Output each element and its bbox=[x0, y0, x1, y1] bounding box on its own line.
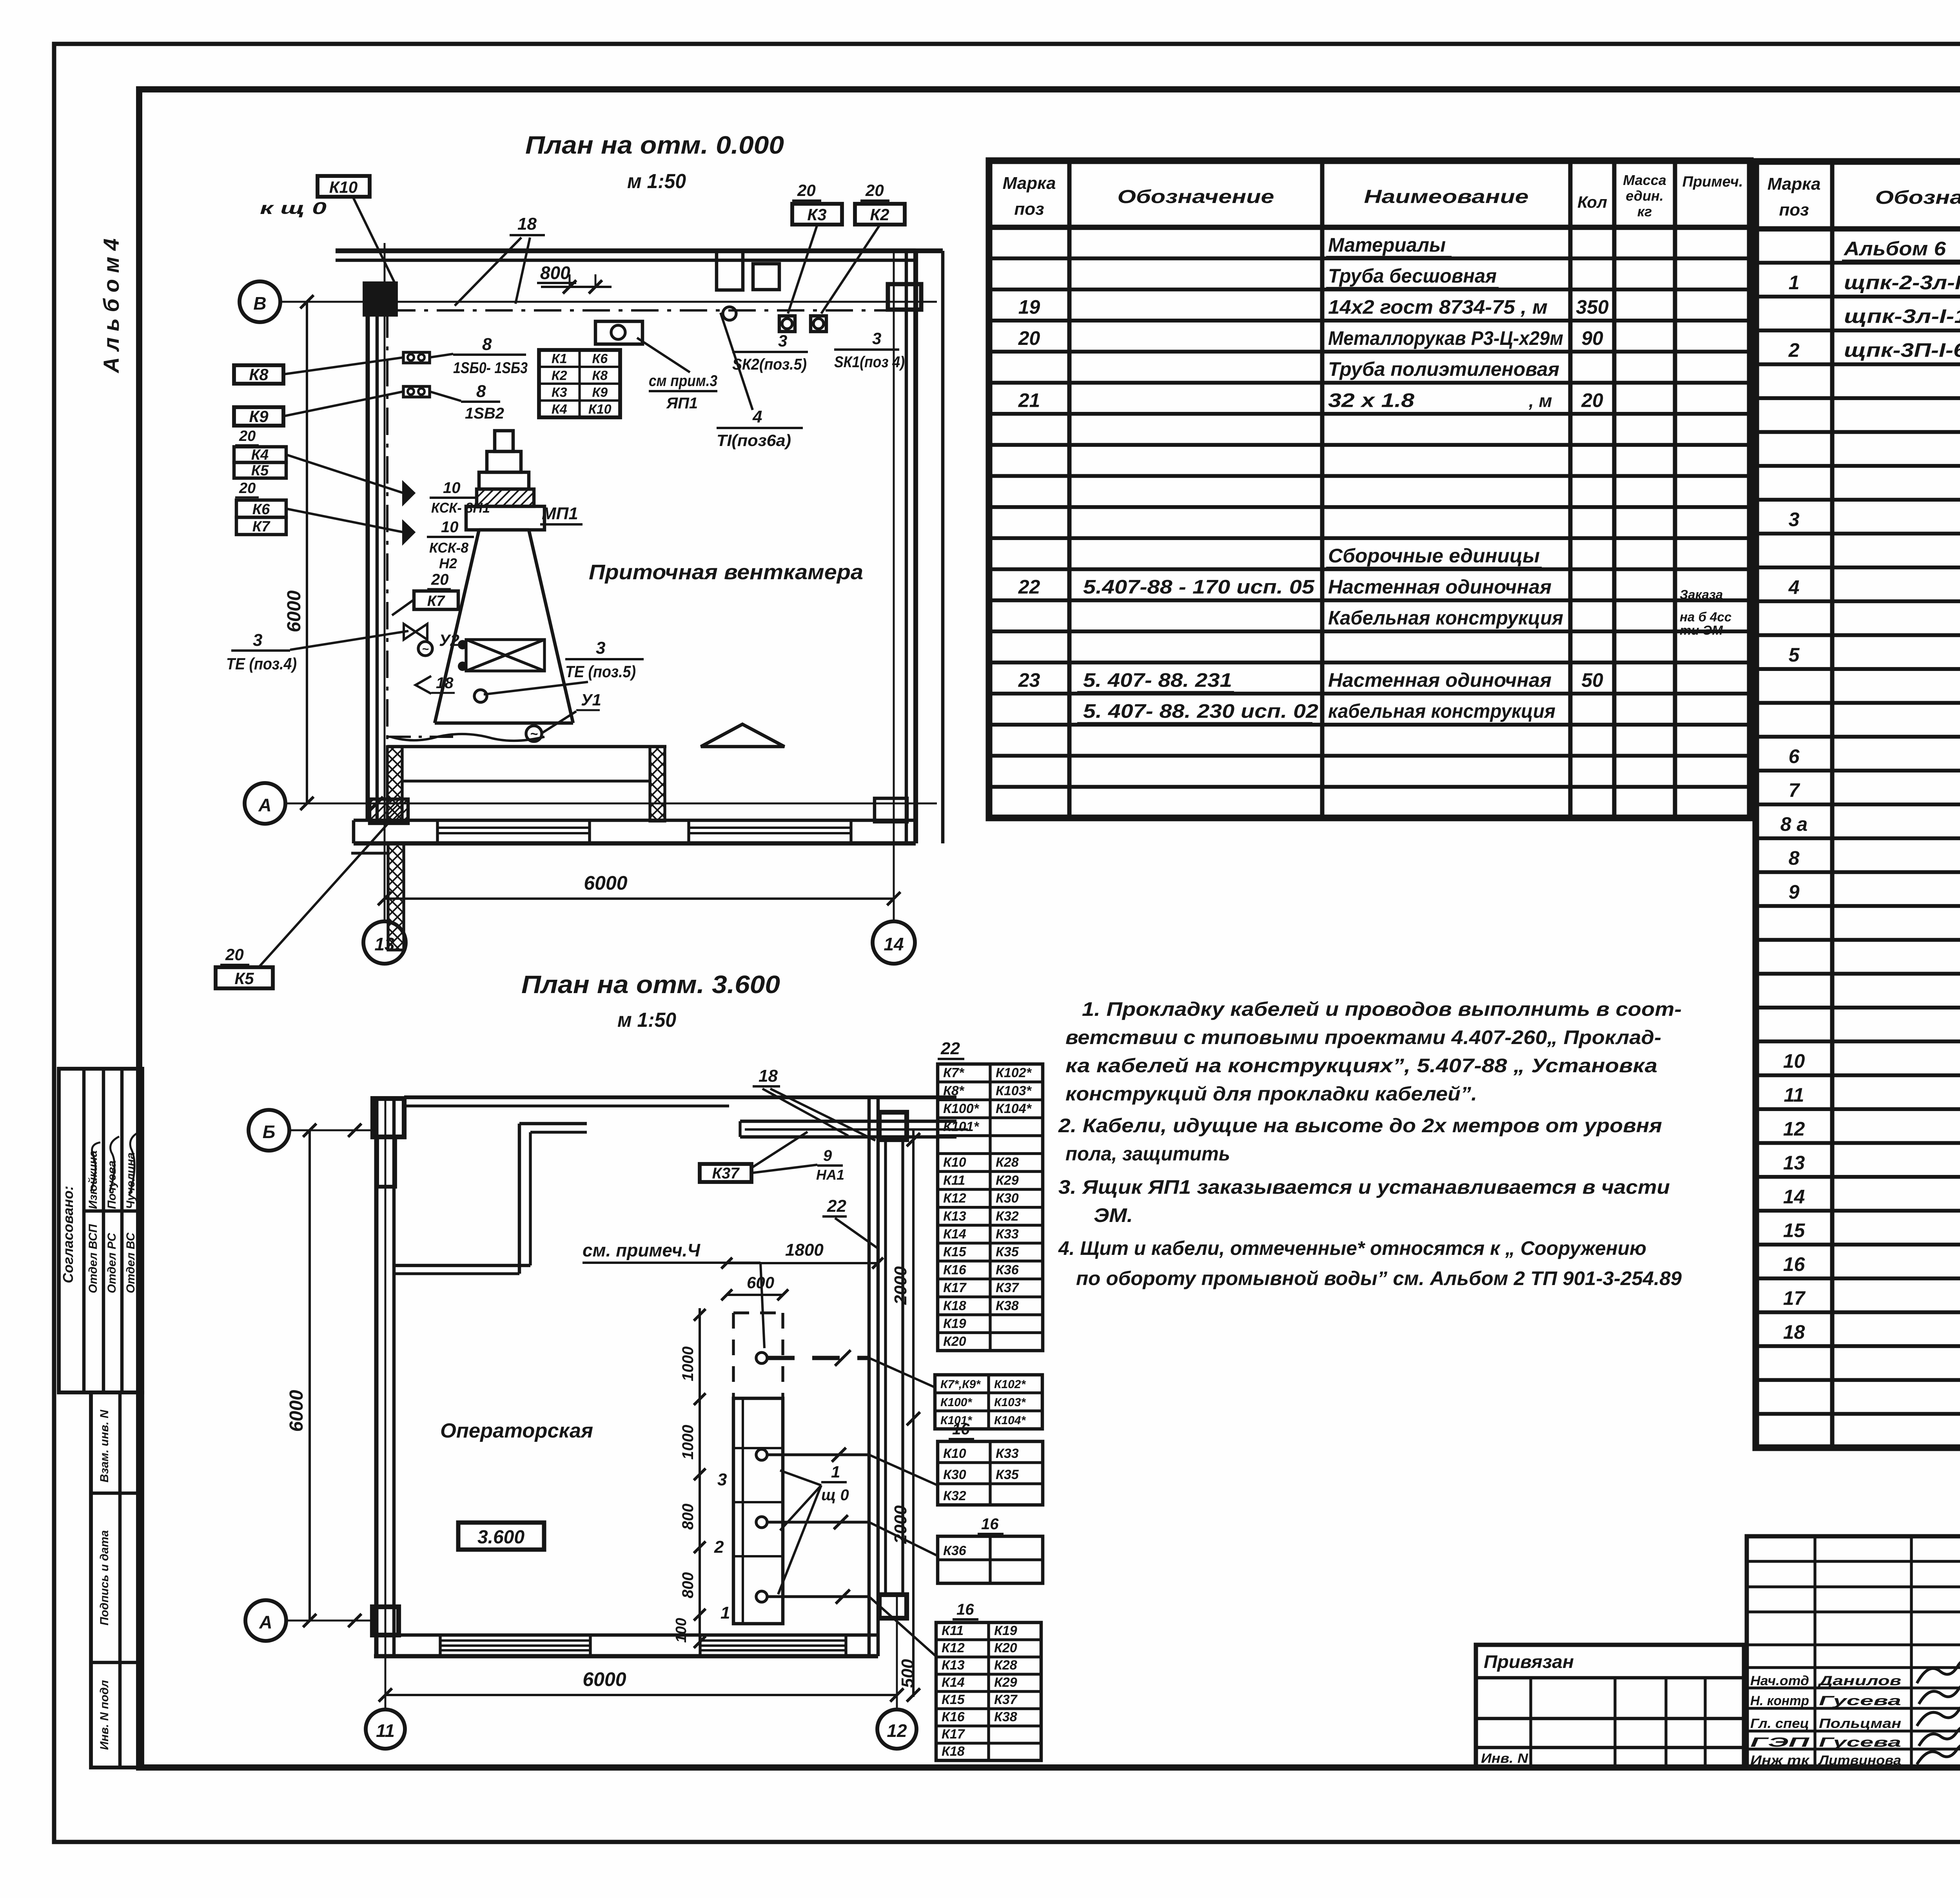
svg-text:Примеч.: Примеч. bbox=[1682, 174, 1743, 190]
svg-text:ТЕ (поз.4): ТЕ (поз.4) bbox=[226, 654, 297, 673]
svg-text:Приточная венткамера: Приточная венткамера bbox=[589, 560, 863, 584]
svg-text:К4: К4 bbox=[552, 402, 567, 417]
svg-text:SК2(поз.5): SК2(поз.5) bbox=[732, 356, 807, 373]
svg-text:В: В bbox=[253, 293, 266, 314]
svg-text:ветствии с типовыми проект: ветствии с типовыми проектами 4.407-260„… bbox=[1065, 1026, 1661, 1048]
svg-text:К37: К37 bbox=[994, 1692, 1018, 1707]
svg-text:8: 8 bbox=[482, 335, 492, 354]
svg-text:6000: 6000 bbox=[584, 872, 627, 894]
svg-text:К28: К28 bbox=[994, 1658, 1017, 1673]
svg-text:1: 1 bbox=[720, 1603, 730, 1622]
svg-text:10: 10 bbox=[1783, 1050, 1805, 1072]
svg-text:К102*: К102* bbox=[994, 1378, 1026, 1391]
svg-text:К2: К2 bbox=[870, 205, 889, 224]
svg-text:Согласовано:: Согласовано: bbox=[60, 1186, 76, 1283]
svg-text:Данилов: Данилов bbox=[1817, 1673, 1901, 1688]
svg-text:КСК-8: КСК-8 bbox=[429, 540, 468, 556]
svg-text:К10: К10 bbox=[943, 1155, 966, 1170]
svg-text:20: 20 bbox=[225, 945, 244, 964]
svg-text:К4: К4 bbox=[251, 447, 269, 463]
svg-text:1. Прокладку кабелей и пр: 1. Прокладку кабелей и проводов выполнит… bbox=[1082, 998, 1682, 1020]
svg-text:Обозначение: Обозначение bbox=[1118, 187, 1274, 207]
svg-text:К2: К2 bbox=[552, 368, 567, 383]
svg-text:К19: К19 bbox=[943, 1316, 966, 1331]
svg-text:К15: К15 bbox=[943, 1245, 967, 1260]
svg-text:20: 20 bbox=[1581, 389, 1603, 411]
svg-text:800: 800 bbox=[679, 1572, 697, 1599]
svg-text:кабельная конструкция: кабельная конструкция bbox=[1328, 700, 1555, 722]
svg-text:Чучелина: Чучелина bbox=[124, 1153, 137, 1209]
svg-text:поз: поз bbox=[1014, 199, 1044, 219]
svg-text:23: 23 bbox=[1018, 669, 1040, 691]
svg-text:К101*: К101* bbox=[943, 1119, 980, 1134]
svg-text:К103*: К103* bbox=[996, 1083, 1032, 1098]
svg-text:1000: 1000 bbox=[679, 1425, 697, 1460]
svg-text:22: 22 bbox=[940, 1039, 960, 1058]
svg-text:Операторская: Операторская bbox=[440, 1419, 593, 1442]
svg-text:А л ь б о м 4: А л ь б о м 4 bbox=[99, 238, 123, 373]
svg-text:Труба бесшовная: Труба бесшовная bbox=[1328, 265, 1497, 287]
svg-text:План на отм. 3.600: План на отм. 3.600 bbox=[521, 970, 780, 999]
svg-text:К12: К12 bbox=[943, 1191, 966, 1206]
svg-text:Н. контр: Н. контр bbox=[1750, 1693, 1809, 1708]
svg-text:Подпись и дата: Подпись и дата bbox=[98, 1530, 111, 1625]
svg-text:5: 5 bbox=[1789, 644, 1800, 666]
svg-text:К19: К19 bbox=[994, 1623, 1017, 1638]
svg-text:К30: К30 bbox=[943, 1467, 966, 1482]
svg-text:18: 18 bbox=[517, 214, 537, 234]
svg-text:1000: 1000 bbox=[679, 1347, 697, 1381]
svg-text:щпк-3П-I-600: щпк-3П-I-600 bbox=[1844, 339, 1960, 361]
svg-text:ка кабелей на конструкциях”: ка кабелей на конструкциях”, 5.407-88 „ … bbox=[1065, 1055, 1657, 1077]
svg-text:щпк-2-3л-I-(800+800): щпк-2-3л-I-(800+800) bbox=[1844, 272, 1960, 294]
svg-text:1SБ0- 1SБ3: 1SБ0- 1SБ3 bbox=[453, 359, 528, 377]
svg-text:поз: поз bbox=[1779, 200, 1809, 219]
svg-text:Изюйкина: Изюйкина bbox=[87, 1151, 100, 1209]
svg-text:18: 18 bbox=[436, 674, 454, 692]
svg-text:К37: К37 bbox=[996, 1280, 1020, 1295]
svg-text:К7: К7 bbox=[427, 593, 445, 609]
svg-text:5. 407- 88. 231: 5. 407- 88. 231 bbox=[1083, 669, 1232, 691]
svg-text:17: 17 bbox=[1783, 1287, 1806, 1309]
svg-text:800: 800 bbox=[679, 1504, 697, 1530]
svg-text:50: 50 bbox=[1581, 669, 1603, 691]
svg-text:Отдел ВС: Отдел ВС bbox=[124, 1232, 137, 1293]
svg-text:100: 100 bbox=[673, 1618, 690, 1642]
svg-text:1: 1 bbox=[831, 1463, 840, 1481]
svg-text:КСК- 8Н1: КСК- 8Н1 bbox=[431, 500, 490, 516]
svg-text:2000: 2000 bbox=[891, 1266, 910, 1305]
svg-text:16: 16 bbox=[981, 1515, 999, 1533]
svg-text:Кабельная конструкция: Кабельная конструкция bbox=[1328, 607, 1563, 629]
svg-text:20: 20 bbox=[431, 571, 449, 588]
svg-text:20: 20 bbox=[239, 428, 256, 444]
svg-text:К10: К10 bbox=[943, 1446, 966, 1461]
svg-text:Гусева: Гусева bbox=[1819, 1693, 1901, 1708]
svg-text:К36: К36 bbox=[996, 1262, 1019, 1277]
svg-text:К13: К13 bbox=[942, 1658, 965, 1673]
svg-text:К16: К16 bbox=[943, 1262, 967, 1277]
svg-text:К9: К9 bbox=[592, 385, 608, 400]
svg-text:К8*: К8* bbox=[943, 1083, 965, 1098]
svg-text:6000: 6000 bbox=[284, 590, 305, 632]
svg-text:6000: 6000 bbox=[286, 1390, 307, 1432]
svg-text:К29: К29 bbox=[996, 1173, 1019, 1188]
svg-text:10: 10 bbox=[443, 479, 461, 497]
svg-text:Металлорукав Р3-Ц-х29м: Металлорукав Р3-Ц-х29м bbox=[1328, 327, 1563, 349]
svg-text:К38: К38 bbox=[994, 1709, 1017, 1724]
svg-text:5. 407- 88. 230 исп. 02: 5. 407- 88. 230 исп. 02 bbox=[1083, 700, 1318, 722]
svg-text:на б 4сс: на б 4сс bbox=[1680, 610, 1731, 624]
svg-text:3. Ящик ЯП1 заказывается и: 3. Ящик ЯП1 заказывается и устанавливает… bbox=[1058, 1176, 1670, 1198]
svg-text:9: 9 bbox=[823, 1147, 832, 1164]
svg-text:Сборочные единицы: Сборочные единицы bbox=[1328, 545, 1540, 567]
svg-text:К36: К36 bbox=[943, 1543, 967, 1558]
svg-text:К12: К12 bbox=[942, 1641, 965, 1655]
svg-text:А: А bbox=[259, 1612, 272, 1632]
svg-text:к щ 0: к щ 0 bbox=[260, 199, 327, 218]
svg-text:План на отм. 0.000: План на отм. 0.000 bbox=[525, 131, 784, 159]
svg-text:Альбом 6: Альбом 6 bbox=[1843, 237, 1946, 259]
svg-text:У2: У2 bbox=[439, 631, 459, 649]
svg-text:К30: К30 bbox=[996, 1191, 1019, 1206]
svg-text:Отдел РС: Отдел РС bbox=[105, 1233, 118, 1293]
svg-text:Материалы: Материалы bbox=[1328, 234, 1446, 256]
svg-text:22: 22 bbox=[827, 1196, 846, 1216]
svg-text:К17: К17 bbox=[943, 1280, 967, 1295]
svg-text:ти ЭМ: ти ЭМ bbox=[1680, 623, 1723, 638]
svg-text:16: 16 bbox=[952, 1421, 970, 1438]
svg-text:НА1: НА1 bbox=[816, 1167, 844, 1183]
svg-text:по обороту промывной воды: по обороту промывной воды” см. Альбом 2 … bbox=[1076, 1267, 1682, 1289]
svg-text:11: 11 bbox=[1784, 1084, 1804, 1106]
svg-text:3: 3 bbox=[1789, 508, 1800, 530]
svg-text:щ 0: щ 0 bbox=[821, 1486, 849, 1504]
svg-text:8 а: 8 а bbox=[1780, 813, 1808, 835]
svg-text:К104*: К104* bbox=[996, 1101, 1032, 1116]
svg-text:, м: , м bbox=[1528, 390, 1552, 411]
svg-text:20: 20 bbox=[797, 181, 816, 199]
svg-text:16: 16 bbox=[956, 1601, 974, 1618]
svg-text:4. Щит и кабели, отмеченные: 4. Щит и кабели, отмеченные* относятся к… bbox=[1058, 1237, 1646, 1259]
svg-text:Литвинова: Литвинова bbox=[1818, 1753, 1901, 1768]
svg-text:~: ~ bbox=[422, 643, 429, 656]
svg-text:Обозначение: Обозначение bbox=[1875, 187, 1960, 208]
svg-text:3: 3 bbox=[596, 638, 605, 658]
svg-text:8: 8 bbox=[476, 382, 486, 401]
svg-text:2. Кабели, идущие на выс: 2. Кабели, идущие на высоте до 2х метров… bbox=[1058, 1115, 1662, 1137]
svg-text:К104*: К104* bbox=[994, 1414, 1026, 1427]
svg-text:Польцман: Польцман bbox=[1819, 1716, 1901, 1731]
svg-text:10: 10 bbox=[441, 518, 459, 536]
svg-text:1800: 1800 bbox=[785, 1240, 824, 1260]
svg-text:К11: К11 bbox=[942, 1623, 964, 1638]
svg-text:1: 1 bbox=[1789, 272, 1800, 294]
svg-text:К5: К5 bbox=[251, 462, 269, 479]
svg-text:К9: К9 bbox=[249, 407, 269, 426]
svg-text:3: 3 bbox=[872, 329, 881, 348]
svg-text:К6: К6 bbox=[592, 352, 608, 366]
svg-text:16: 16 bbox=[1783, 1253, 1806, 1275]
svg-text:Заказа: Заказа bbox=[1680, 587, 1723, 602]
svg-text:К14: К14 bbox=[943, 1227, 966, 1242]
svg-text:Н2: Н2 bbox=[439, 555, 457, 571]
svg-text:18: 18 bbox=[1783, 1321, 1805, 1343]
svg-text:ГЭП: ГЭП bbox=[1750, 1735, 1810, 1750]
svg-text:12: 12 bbox=[1783, 1118, 1805, 1140]
svg-text:Нач.отд: Нач.отд bbox=[1750, 1673, 1809, 1688]
svg-text:Настенная одиночная: Настенная одиночная bbox=[1328, 669, 1552, 691]
svg-text:14: 14 bbox=[884, 934, 904, 954]
svg-text:3: 3 bbox=[778, 332, 787, 350]
svg-text:К11: К11 bbox=[943, 1173, 965, 1188]
svg-text:К5: К5 bbox=[234, 969, 254, 988]
svg-text:32 х 1.8: 32 х 1.8 bbox=[1328, 389, 1414, 411]
svg-text:К3: К3 bbox=[552, 385, 567, 400]
svg-text:К33: К33 bbox=[996, 1227, 1019, 1242]
svg-text:20: 20 bbox=[865, 181, 884, 199]
svg-text:МП1: МП1 bbox=[542, 504, 578, 523]
svg-text:Настенная одиночная: Настенная одиночная bbox=[1328, 576, 1552, 598]
svg-text:90: 90 bbox=[1581, 327, 1603, 349]
svg-text:11: 11 bbox=[376, 1720, 395, 1741]
svg-text:К7*,К9*: К7*,К9* bbox=[940, 1378, 981, 1391]
svg-text:ТЕ (поз.5): ТЕ (поз.5) bbox=[565, 662, 636, 681]
svg-text:У1: У1 bbox=[581, 691, 601, 709]
svg-text:Взам. инв. N: Взам. инв. N bbox=[98, 1409, 111, 1483]
svg-text:К100*: К100* bbox=[943, 1101, 980, 1116]
svg-text:18: 18 bbox=[759, 1066, 778, 1086]
svg-text:К37: К37 bbox=[712, 1165, 740, 1182]
svg-text:6000: 6000 bbox=[583, 1668, 626, 1690]
svg-text:К35: К35 bbox=[996, 1245, 1019, 1260]
svg-text:К14: К14 bbox=[942, 1675, 965, 1690]
svg-text:Марка: Марка bbox=[1768, 174, 1821, 194]
svg-text:кг: кг bbox=[1637, 203, 1652, 219]
svg-text:2: 2 bbox=[1788, 339, 1800, 361]
svg-text:К102*: К102* bbox=[996, 1066, 1032, 1080]
svg-text:К38: К38 bbox=[996, 1298, 1019, 1313]
svg-text:К6: К6 bbox=[252, 501, 270, 518]
svg-text:15: 15 bbox=[1783, 1220, 1806, 1242]
svg-text:А: А bbox=[258, 795, 271, 815]
svg-text:щпк-3л-I-1000: щпк-3л-I-1000 bbox=[1844, 305, 1960, 327]
svg-text:9: 9 bbox=[1789, 881, 1800, 903]
svg-text:м 1:50: м 1:50 bbox=[627, 170, 686, 193]
svg-text:ТI(поз6а): ТI(поз6а) bbox=[717, 431, 791, 450]
svg-text:4: 4 bbox=[1788, 576, 1800, 598]
svg-text:350: 350 bbox=[1576, 296, 1609, 318]
svg-text:К3: К3 bbox=[807, 205, 826, 224]
svg-text:2: 2 bbox=[714, 1537, 724, 1557]
svg-text:14х2 гост 8734-75 , м: 14х2 гост 8734-75 , м bbox=[1328, 296, 1548, 318]
svg-text:К18: К18 bbox=[942, 1744, 965, 1759]
svg-text:К103*: К103* bbox=[994, 1396, 1026, 1409]
svg-text:К29: К29 bbox=[994, 1675, 1017, 1690]
svg-text:конструкций для прокладки: конструкций для прокладки кабелей”. bbox=[1065, 1083, 1477, 1105]
svg-text:К35: К35 bbox=[996, 1467, 1019, 1482]
svg-text:20: 20 bbox=[1018, 327, 1040, 349]
svg-text:3: 3 bbox=[253, 631, 262, 650]
svg-text:19: 19 bbox=[1018, 296, 1040, 318]
svg-text:пола, защитить: пола, защитить bbox=[1065, 1143, 1230, 1165]
svg-text:ЭМ.: ЭМ. bbox=[1094, 1204, 1133, 1226]
svg-text:К16: К16 bbox=[942, 1709, 965, 1724]
svg-text:22: 22 bbox=[1018, 576, 1040, 598]
svg-text:К100*: К100* bbox=[940, 1396, 972, 1409]
svg-text:един.: един. bbox=[1626, 188, 1663, 204]
svg-text:Б: Б bbox=[263, 1122, 276, 1142]
svg-text:К33: К33 bbox=[996, 1446, 1019, 1461]
svg-text:К8: К8 bbox=[249, 365, 269, 384]
svg-text:SК1(поз 4): SК1(поз 4) bbox=[834, 353, 905, 371]
svg-text:5.407-88 - 170 исп. 05: 5.407-88 - 170 исп. 05 bbox=[1083, 576, 1315, 598]
svg-text:К18: К18 bbox=[943, 1298, 966, 1313]
svg-text:6: 6 bbox=[1789, 745, 1800, 767]
svg-text:13: 13 bbox=[1783, 1152, 1805, 1174]
svg-text:Труба полиэтиленовая: Труба полиэтиленовая bbox=[1328, 358, 1559, 380]
svg-text:Марка: Марка bbox=[1003, 174, 1056, 193]
svg-text:Гусева: Гусева bbox=[1819, 1735, 1901, 1750]
svg-text:м 1:50: м 1:50 bbox=[617, 1009, 676, 1031]
svg-text:14: 14 bbox=[1783, 1186, 1805, 1207]
svg-text:см. примеч.Ч: см. примеч.Ч bbox=[583, 1240, 701, 1260]
svg-text:Наимеование: Наимеование bbox=[1364, 187, 1529, 207]
svg-text:20: 20 bbox=[239, 480, 256, 497]
svg-text:Привязан: Привязан bbox=[1484, 1651, 1574, 1672]
svg-text:К13: К13 bbox=[943, 1209, 966, 1224]
svg-text:К20: К20 bbox=[994, 1641, 1017, 1655]
svg-text:К7*: К7* bbox=[943, 1066, 965, 1080]
svg-text:Масса: Масса bbox=[1623, 172, 1666, 188]
svg-text:К8: К8 bbox=[592, 368, 608, 383]
svg-text:7: 7 bbox=[1789, 780, 1800, 801]
svg-text:800: 800 bbox=[540, 263, 570, 283]
svg-text:К32: К32 bbox=[996, 1209, 1019, 1224]
svg-text:Гл. спец: Гл. спец bbox=[1750, 1716, 1809, 1731]
svg-text:К10: К10 bbox=[588, 402, 612, 417]
svg-text:ЯП1: ЯП1 bbox=[666, 395, 698, 412]
svg-text:Инв. N: Инв. N bbox=[1481, 1751, 1529, 1766]
svg-text:К7: К7 bbox=[252, 518, 270, 535]
svg-text:К32: К32 bbox=[943, 1488, 966, 1503]
svg-text:1SВ2: 1SВ2 bbox=[465, 405, 504, 422]
svg-text:К15: К15 bbox=[942, 1692, 965, 1707]
svg-text:Инж тк: Инж тк bbox=[1750, 1753, 1810, 1768]
svg-text:см прим.3: см прим.3 bbox=[649, 372, 717, 390]
svg-text:21: 21 bbox=[1018, 389, 1040, 411]
svg-text:3.600: 3.600 bbox=[477, 1527, 524, 1548]
svg-text:Кол: Кол bbox=[1577, 193, 1607, 211]
svg-text:Инв. N подл: Инв. N подл bbox=[98, 1680, 111, 1750]
svg-text:К28: К28 bbox=[996, 1155, 1019, 1170]
svg-text:8: 8 bbox=[1789, 847, 1800, 869]
svg-text:12: 12 bbox=[887, 1720, 907, 1741]
svg-text:К10: К10 bbox=[329, 178, 358, 196]
svg-text:3: 3 bbox=[717, 1470, 727, 1489]
svg-text:К1: К1 bbox=[552, 352, 567, 366]
svg-text:К20: К20 bbox=[943, 1334, 966, 1349]
svg-text:Отдел ВСП: Отдел ВСП bbox=[87, 1224, 100, 1293]
svg-text:К17: К17 bbox=[942, 1727, 965, 1742]
svg-text:4: 4 bbox=[752, 407, 762, 426]
